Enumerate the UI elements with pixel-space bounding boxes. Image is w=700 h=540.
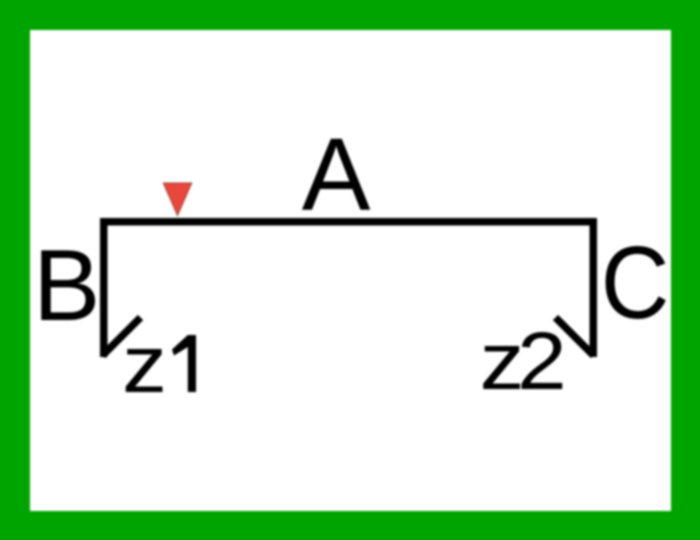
svg-text:C: C [601, 225, 670, 340]
svg-text:B: B [33, 230, 100, 342]
svg-text:2: 2 [517, 316, 567, 407]
svg-text:z: z [122, 319, 167, 410]
svg-text:A: A [302, 117, 371, 232]
